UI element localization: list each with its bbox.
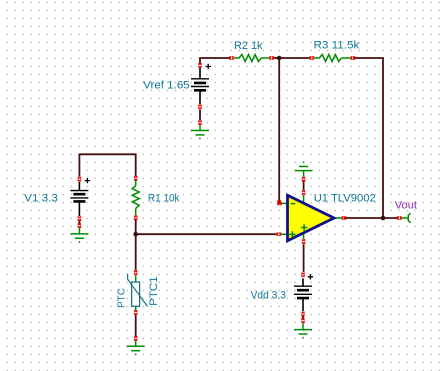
ground below V1 [70,228,88,242]
wire PTC1 to ground [134,310,138,340]
svg-text:PTC1: PTC1 [148,276,160,306]
battery Vdd [294,274,313,311]
svg-text:R2 1k: R2 1k [234,40,263,52]
node C output junction [381,216,386,221]
svg-text:R3 11.5k: R3 11.5k [314,40,360,52]
wire node B down to PTC1 [134,234,138,275]
op-amp U1 [281,195,342,241]
battery V1 [70,178,90,216]
svg-text:Vout: Vout [395,199,418,211]
svg-text:R1 10k: R1 10k [148,193,180,205]
svg-text:V1 3.3: V1 3.3 [24,192,58,204]
wire V1 bottom to ground [78,216,82,227]
wire V1 top to R1 top [78,154,138,181]
wire R3 right then down to output node [353,58,383,218]
wire ground to op-amp V- pin [302,177,306,195]
svg-text:Vref 1.65: Vref 1.65 [143,80,190,92]
thermistor PTC1 [128,274,148,311]
svg-text:Vdd 3.3: Vdd 3.3 [251,289,286,301]
node B junction R1/PTC [133,232,138,237]
wire R2 to R3 through node [274,57,310,59]
resistor R2 [229,55,273,62]
wire R1 bottom to node B [134,216,138,235]
svg-text:PTC: PTC [116,288,128,308]
wire op-amp output row [342,216,402,220]
wire Vdd bottom to ground [301,312,305,323]
battery Vref [191,64,211,105]
port Vout [401,213,411,222]
resistor R3 [310,55,355,62]
ground below Vref [191,125,209,139]
ground below Vdd [294,323,312,338]
resistor R1 [132,180,139,215]
wire node B to op-amp non-inverting input [136,232,281,236]
wire inverting input branch [277,58,281,205]
svg-text:U1 TLV9002: U1 TLV9002 [314,193,376,205]
wire Vref top to R2 [198,58,229,68]
ground above op-amp (inverted) [295,162,313,177]
wire Vref bottom to ground [198,105,202,125]
wire op-amp V+ pin to Vdd [301,239,305,276]
ground below PTC1 [127,341,145,355]
node A junction R2/R3 [277,56,282,61]
